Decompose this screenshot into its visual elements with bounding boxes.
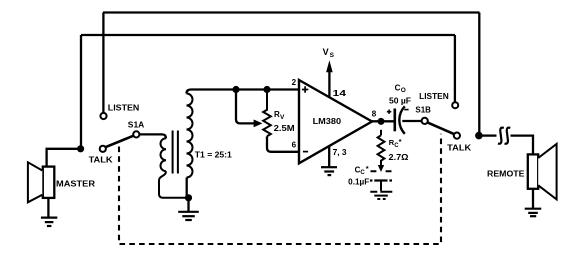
wire: CC to ground xyxy=(380,181,382,191)
resistor RC body xyxy=(378,135,385,165)
terminal: master LISTEN contact xyxy=(100,113,106,119)
pin 14 supply lead xyxy=(328,71,330,97)
svg-text:O: O xyxy=(401,87,406,94)
op-amp minus input mark xyxy=(303,151,308,153)
svg-text:C: C xyxy=(395,83,401,92)
svg-text:14: 14 xyxy=(333,89,347,98)
wire: primary bottom lead xyxy=(159,171,187,198)
wire: transformer junction to ground xyxy=(187,198,189,211)
svg-text:TALK: TALK xyxy=(447,143,471,152)
svg-text:S1A: S1A xyxy=(128,120,145,129)
svg-text:V: V xyxy=(280,114,285,121)
node: master speaker/TALK junction xyxy=(77,145,84,152)
dashed gang link S1A-S1B xyxy=(119,134,441,244)
terminal: master TALK contact xyxy=(100,146,106,152)
node: pin 8 output junction xyxy=(378,118,385,125)
wire: inner top rail xyxy=(81,34,455,36)
svg-text:MASTER: MASTER xyxy=(56,179,95,188)
line-break mark 1 xyxy=(498,128,504,144)
svg-text:*: * xyxy=(399,137,402,146)
svg-text:6: 6 xyxy=(292,141,297,150)
speaker MASTER driver xyxy=(43,167,55,198)
svg-text:REMOTE: REMOTE xyxy=(487,169,525,178)
wire: outer rail right vertical to remote TALK node xyxy=(478,13,480,134)
transformer T1 core xyxy=(173,131,178,174)
node B: input rail dot 2 xyxy=(263,86,270,93)
wire: RC branch dashed lead xyxy=(380,130,382,136)
capacitor CO plus plate xyxy=(393,109,396,132)
svg-text:8: 8 xyxy=(372,109,377,118)
svg-text:2.7Ω: 2.7Ω xyxy=(389,153,410,162)
svg-text:0.1µF: 0.1µF xyxy=(348,177,369,186)
switch S1B blade xyxy=(427,122,454,134)
wire: line break to remote speaker xyxy=(511,136,534,155)
svg-text:2: 2 xyxy=(292,78,297,87)
capacitor CC bottom plate xyxy=(370,179,392,181)
line-break mark 2 xyxy=(505,128,511,144)
wire: wiper feed from node A xyxy=(236,90,254,124)
svg-text:LISTEN: LISTEN xyxy=(108,104,140,113)
capacitor CO plus sign xyxy=(387,110,391,114)
svg-text:7, 3: 7, 3 xyxy=(333,148,348,157)
speaker REMOTE driver xyxy=(528,154,538,188)
switch S1A blade xyxy=(106,136,134,147)
ground (op-amp) xyxy=(321,167,337,175)
wire: CO to S1B xyxy=(402,120,421,122)
potentiometer RV body xyxy=(263,90,271,137)
wire: secondary bottom lead xyxy=(186,178,188,198)
pins 7,3 ground lead xyxy=(328,146,330,166)
capacitor CO curved plate xyxy=(399,106,404,134)
terminal: remote TALK contact xyxy=(454,133,460,139)
node: transformer bottom / ground junction xyxy=(185,194,192,201)
svg-text:2.5M: 2.5M xyxy=(274,124,295,133)
potentiometer RV wiper arrow xyxy=(254,120,263,128)
wire: inner rail right vertical to remote LISTEN xyxy=(454,35,456,102)
wire: junction to line break xyxy=(482,134,497,136)
wire: pin 8 output lead xyxy=(372,120,395,122)
speaker REMOTE cone xyxy=(538,144,556,200)
op-amp plus input mark xyxy=(302,86,308,92)
svg-text:*: * xyxy=(366,164,369,173)
switch S1B common terminal xyxy=(422,118,428,124)
svg-text:V: V xyxy=(323,47,329,57)
svg-text:S1B: S1B xyxy=(415,106,431,115)
svg-text:LISTEN: LISTEN xyxy=(419,92,449,101)
svg-text:LM380: LM380 xyxy=(313,117,342,126)
node: remote TALK junction xyxy=(475,132,483,140)
svg-text:C: C xyxy=(360,170,365,176)
wire: inner rail left vertical to master TALK node xyxy=(80,35,82,147)
wire: outer top rail xyxy=(103,11,480,13)
transformer T1 primary winding xyxy=(161,138,166,171)
ground (CC, broken style) xyxy=(370,192,392,199)
ground (transformer) xyxy=(178,212,199,220)
op-amp U1 LM380 body xyxy=(299,80,372,163)
wire: master speaker to ground xyxy=(47,198,49,217)
terminal: remote LISTEN contact xyxy=(452,102,458,108)
wire: secondary top to pin 2 xyxy=(187,90,300,94)
wire: RV bottom to pin 6 xyxy=(267,136,299,152)
resistor RC bottom arrow xyxy=(378,165,384,172)
capacitor CO minus sign xyxy=(404,109,408,111)
speaker MASTER cone xyxy=(28,162,42,202)
node A: input rail dot 1 xyxy=(232,86,239,93)
wire: outer rail left vertical to master LISTEN xyxy=(102,13,104,113)
transformer T1 secondary winding xyxy=(187,94,193,178)
wire: junction to master speaker xyxy=(47,149,81,167)
supply arrow VS xyxy=(326,60,333,72)
svg-text:S: S xyxy=(330,52,335,59)
ground (remote speaker) xyxy=(525,209,542,217)
capacitor CC top plate xyxy=(371,170,392,172)
wire: S1A to transformer primary xyxy=(139,134,166,138)
ground (master speaker) xyxy=(41,218,57,226)
wire: remote speaker to ground xyxy=(532,189,534,208)
svg-text:T1 = 25:1: T1 = 25:1 xyxy=(195,150,233,159)
svg-text:50 µF: 50 µF xyxy=(389,97,411,106)
svg-text:TALK: TALK xyxy=(89,156,113,165)
switch S1A common terminal xyxy=(133,131,139,137)
